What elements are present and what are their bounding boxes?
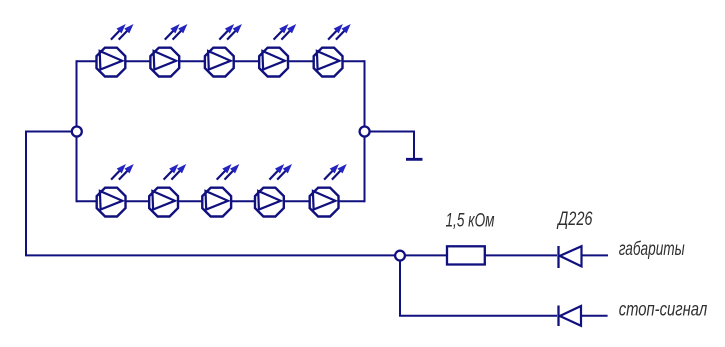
wire: far-left vertical bus: [25, 131, 27, 256]
node A (left junction): [72, 127, 82, 137]
LED HL10 (bottom chain): [310, 165, 346, 216]
diode VD1 triangle: [560, 246, 582, 266]
LED HL8 (bottom chain): [202, 165, 238, 216]
wire: diode VD1 to габариты terminal: [582, 254, 609, 256]
LED HL7 (bottom chain): [149, 165, 185, 216]
wire: node B to ground drop: [370, 132, 414, 159]
LED HL5 (top chain): [314, 25, 350, 76]
wire: left rail of LED loop: [76, 60, 78, 202]
wire: right rail of LED loop: [364, 60, 366, 202]
ground: [406, 158, 423, 161]
svg-text:габариты: габариты: [619, 239, 685, 260]
svg-text:1,5 кОм: 1,5 кОм: [446, 211, 495, 232]
resistor R1 (1,5 kOhm): [447, 246, 485, 264]
wire: resistor R1 to diode VD1: [485, 254, 557, 256]
wire: stub from node A to far-left bus: [26, 131, 72, 133]
LED HL4 (top chain): [259, 25, 295, 76]
diode VD2 cathode bar: [557, 306, 559, 327]
wire: branch to diode VD2: [399, 315, 557, 317]
svg-text:Д226: Д226: [556, 209, 592, 230]
LED HL3 (top chain): [205, 25, 241, 76]
svg-text:стоп-сигнал: стоп-сигнал: [619, 300, 708, 321]
LED HL2 (top chain): [150, 25, 186, 76]
diode VD1 (Д226) cathode bar: [557, 246, 559, 268]
LED HL1 (top chain): [96, 25, 132, 76]
diode VD2 triangle: [560, 306, 581, 326]
node C (feed junction): [395, 251, 405, 261]
wire: node C to resistor R1: [405, 254, 447, 256]
wire: diode VD2 to стоп-сигнал terminal: [581, 315, 608, 317]
wire: node C drop to stop-signal branch: [399, 260, 401, 316]
wire: top rail of LED loop: [77, 60, 365, 62]
LED HL9 (bottom chain): [255, 165, 291, 216]
LED HL6 (bottom chain): [97, 165, 133, 216]
node B (right junction): [360, 127, 370, 137]
wire: bottom rail of LED loop: [77, 200, 365, 202]
wire: long bottom feed to node C: [25, 254, 395, 256]
